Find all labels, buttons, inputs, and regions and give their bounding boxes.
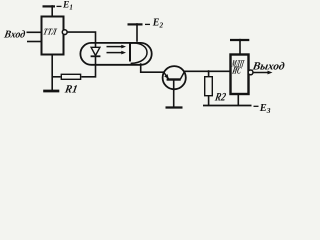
label -E3 — [254, 103, 271, 115]
resistor R1 — [61, 74, 80, 79]
input wire 2 — [27, 41, 41, 43]
MOS IC box — [231, 55, 249, 95]
label Вход — [2, 30, 26, 41]
label Выход — [251, 61, 286, 73]
label ТТЛ — [42, 26, 58, 36]
label МДП — [230, 59, 245, 70]
power rail E1 bar — [43, 5, 56, 8]
wire E1 to gate top — [51, 6, 53, 16]
LED triangle — [91, 47, 100, 55]
optocoupler body — [80, 43, 151, 65]
svg-text:Выход: Выход — [251, 61, 286, 73]
base lead — [173, 80, 175, 108]
label ИС — [231, 66, 243, 77]
output bubble — [248, 70, 253, 75]
label E1 — [57, 1, 73, 12]
rail E3 — [203, 105, 252, 107]
power rail top bar — [230, 39, 249, 42]
svg-text:R1: R1 — [63, 84, 79, 96]
light arrow 1 — [107, 45, 127, 49]
wire gate bottom to ground — [51, 55, 53, 91]
wire collector to MOS IC — [184, 70, 229, 72]
resistor R2 — [205, 77, 213, 96]
input wire 1 — [27, 31, 41, 33]
ground bar (base common) — [166, 106, 183, 108]
emitter with arrow — [164, 72, 169, 79]
wire MOS IC bottom to rail — [237, 95, 239, 106]
wire TTL output to LED anode — [67, 32, 95, 47]
label R1 — [63, 84, 79, 96]
transistor VT1 circle — [163, 66, 186, 89]
power rail E2 bar — [128, 23, 143, 26]
node at R2 — [207, 70, 209, 72]
TTL gate U1 box — [42, 17, 64, 55]
photodiode bar — [129, 43, 131, 62]
wire to R2 top — [208, 71, 210, 76]
inverter bubble — [62, 30, 67, 35]
wire E2 to optocoupler — [136, 24, 138, 41]
output arrow — [253, 71, 273, 75]
label R2 — [213, 90, 227, 103]
base bar — [167, 78, 181, 80]
wire R2 bottom to rail — [208, 96, 210, 106]
wire R1 to LED cathode — [81, 56, 95, 77]
collector — [180, 71, 184, 79]
wire bar to MOS IC top — [239, 40, 241, 54]
wire photodiode to transistor emitter — [141, 63, 164, 72]
wire to R1 — [52, 76, 60, 78]
photodiode arc — [131, 43, 147, 63]
label E2 — [145, 18, 163, 30]
LED cathode bar — [91, 55, 101, 57]
light arrow 2 — [107, 51, 127, 55]
svg-text:Вход: Вход — [2, 30, 26, 41]
ground bar (TTL common) — [43, 90, 59, 93]
